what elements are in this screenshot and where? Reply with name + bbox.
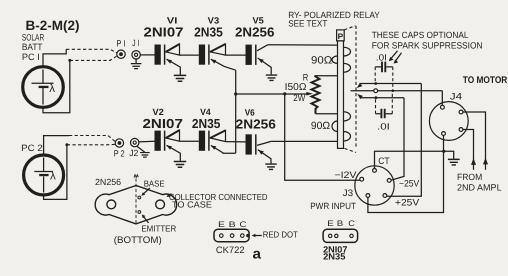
relay armature contact — [351, 89, 443, 93]
ground V2 — [174, 162, 186, 168]
relay core bar — [338, 41, 344, 148]
svg-text:λ: λ — [49, 83, 55, 95]
label RED DOT with arrow — [252, 229, 299, 239]
arrowhead FROM AMPL left — [471, 158, 476, 165]
svg-text:C: C — [348, 219, 355, 228]
solar cell PC2 — [24, 155, 64, 195]
svg-text:THESE CAPS OPTIONAL: THESE CAPS OPTIONAL — [372, 30, 469, 40]
svg-text:SEE TEXT: SEE TEXT — [288, 19, 328, 29]
svg-text:E: E — [327, 219, 334, 228]
relay top coil 90 ohm — [332, 47, 351, 72]
transistor V2 2N107 — [143, 107, 183, 161]
svg-text:2N35: 2N35 — [194, 25, 223, 40]
svg-text:B: B — [229, 220, 236, 229]
svg-text:FROM: FROM — [457, 172, 482, 182]
plug P2 — [114, 139, 125, 159]
svg-text:CT: CT — [378, 155, 390, 166]
connector J4 — [429, 90, 468, 140]
capacitor .01 bottom — [376, 92, 393, 131]
transistor V1 2N107 — [144, 15, 184, 74]
svg-text:λ: λ — [50, 171, 56, 183]
label RY-POLARIZED RELAY SEE TEXT — [288, 10, 380, 28]
svg-text:−25V: −25V — [399, 178, 420, 189]
ground J2 — [137, 146, 150, 157]
label EMITTER with arrow — [141, 214, 176, 233]
wire V3 collector to V5 base — [226, 54, 246, 56]
svg-text:J3: J3 — [343, 187, 354, 198]
wire V2 collector to V4 base — [180, 140, 199, 142]
arrowhead FROM AMPL right — [483, 158, 488, 165]
relay contact top — [357, 82, 422, 88]
wire V4 collector to V6 base — [226, 141, 246, 143]
junction dot at -12V branch — [283, 92, 286, 95]
label SOLAR BATT PC1 — [22, 33, 45, 62]
wire common emitter bus V3/V4 — [235, 70, 237, 153]
svg-text:2NI07: 2NI07 — [143, 116, 183, 131]
svg-text:CK722: CK722 — [216, 245, 245, 255]
jack J2 — [129, 138, 139, 158]
connector J3 — [355, 166, 394, 205]
dashed cable PC1 lower line — [70, 56, 117, 60]
wire V1 collector to V3 base — [180, 54, 199, 56]
ground J1 — [131, 59, 142, 69]
svg-text:RED DOT: RED DOT — [263, 229, 299, 239]
svg-text:PWR INPUT: PWR INPUT — [310, 201, 356, 211]
svg-text:2N256: 2N256 — [95, 177, 121, 187]
svg-text:BATT: BATT — [22, 42, 43, 52]
wire top contact to +25V pin — [387, 84, 422, 197]
dashed cable PC2 upper line — [69, 136, 115, 142]
ground V1 — [174, 75, 186, 81]
svg-text:2N256: 2N256 — [235, 25, 274, 40]
ground J4 — [444, 151, 460, 165]
transistor V5 2N256 — [235, 15, 274, 74]
junction dot common bus — [234, 92, 237, 95]
junction dot at J4 ground — [442, 150, 445, 153]
wire V6 collector to relay bottom coil — [271, 140, 337, 142]
wire common bus down to J3 -12V pin — [285, 94, 360, 180]
wire J1 to V1 base — [140, 54, 154, 56]
svg-text:−I2V: −I2V — [334, 169, 357, 180]
label THESE CAPS OPTIONAL FOR SPARK SUPPRESSION — [372, 30, 483, 50]
junction dot PC2 bottom feed — [65, 143, 68, 146]
svg-text:90Ω: 90Ω — [311, 54, 332, 66]
wire PC2 bottom feed — [44, 145, 67, 200]
svg-text:2W: 2W — [293, 92, 305, 103]
wire J4 top-right pin to FROM 2ND AMPL — [463, 112, 486, 170]
junction dot PC1 bottom feed — [68, 59, 71, 62]
svg-text:J I: J I — [132, 38, 139, 48]
svg-text:P: P — [338, 32, 344, 41]
svg-text:J4: J4 — [450, 90, 462, 101]
plug P1 — [116, 39, 125, 59]
svg-text:BASE: BASE — [144, 178, 165, 188]
relay contact bottom — [357, 94, 404, 99]
wire J4 bottom-right pin to FROM 2ND AMPL — [463, 130, 474, 170]
svg-text:P I: P I — [116, 39, 125, 49]
dashed cable PC2 lower line — [67, 143, 115, 145]
svg-text:.0I: .0I — [377, 121, 390, 131]
resistor R 150 ohm 2W — [285, 71, 338, 113]
armature arrowhead — [306, 92, 313, 96]
label BASE with arrow — [141, 178, 165, 195]
svg-text:B-2-M(2): B-2-M(2) — [26, 18, 80, 33]
svg-text:90Ω: 90Ω — [311, 120, 330, 132]
svg-text:2NI07: 2NI07 — [144, 25, 184, 40]
solar cell PC1 — [23, 67, 64, 108]
wire V5 collector to relay top coil — [268, 44, 338, 46]
transistor V4 2N35 — [192, 107, 236, 153]
wire CT from J3 top pin — [375, 151, 444, 168]
wire PC1 top feed — [43, 49, 66, 67]
svg-text:J2: J2 — [129, 148, 138, 158]
svg-text:R: R — [303, 71, 309, 82]
wire PC1 bottom feed — [43, 60, 70, 112]
transistor V6 2N256 — [236, 108, 276, 164]
svg-text:+25V: +25V — [395, 197, 420, 208]
ground V6 — [265, 164, 276, 169]
ground V5 — [266, 75, 277, 80]
svg-text:a: a — [253, 246, 262, 262]
svg-text:PC I: PC I — [22, 52, 40, 62]
svg-text:FOR SPARK SUPPRESSION: FOR SPARK SUPPRESSION — [372, 40, 483, 50]
capacitor .01 top — [375, 52, 393, 89]
svg-text:C: C — [240, 220, 247, 229]
relay bottom coil 90 ohm — [332, 112, 351, 141]
svg-text:SOLAR: SOLAR — [22, 33, 45, 43]
svg-text:PC 2: PC 2 — [21, 143, 43, 153]
transistor V3 2N35 — [194, 15, 236, 70]
svg-text:TO MOTOR: TO MOTOR — [463, 75, 508, 86]
jack J1 — [132, 38, 140, 59]
relay pivot box P — [337, 30, 345, 41]
CK722 package — [214, 220, 250, 255]
svg-text:2N35: 2N35 — [323, 252, 345, 262]
wire bottom contact to -25V pin — [391, 98, 404, 181]
svg-text:2N35: 2N35 — [192, 116, 221, 131]
svg-text:2ND AMPL: 2ND AMPL — [457, 182, 502, 192]
svg-text:E: E — [218, 220, 225, 229]
wire J2 to V2 base — [139, 140, 155, 143]
wire PC2 top feed — [44, 136, 69, 155]
svg-text:P 2: P 2 — [114, 149, 125, 159]
label FROM 2ND AMPL — [457, 172, 502, 192]
svg-text:B: B — [337, 219, 344, 228]
wire common bus to armature — [236, 93, 307, 95]
dashed cable PC1 upper line — [66, 49, 116, 52]
svg-text:(BOTTOM): (BOTTOM) — [114, 235, 162, 246]
svg-text:.0I: .0I — [376, 52, 387, 62]
arrows to caps — [389, 51, 402, 64]
svg-text:TO CASE: TO CASE — [172, 200, 212, 210]
2N107 2N35 package — [323, 219, 358, 261]
wire J4 bottom-left pin down to bottom route — [368, 136, 444, 213]
2N256 case drawing — [95, 175, 177, 224]
relay enclosure dashed — [344, 26, 356, 153]
wire armature line corner to J4 pin — [441, 91, 443, 106]
label J3 PWR INPUT — [310, 187, 356, 211]
svg-text:2N256: 2N256 — [236, 117, 276, 132]
label COLLECTOR CONNECTED TO CASE with arrow — [167, 192, 268, 210]
svg-text:EMITTER: EMITTER — [141, 223, 176, 233]
